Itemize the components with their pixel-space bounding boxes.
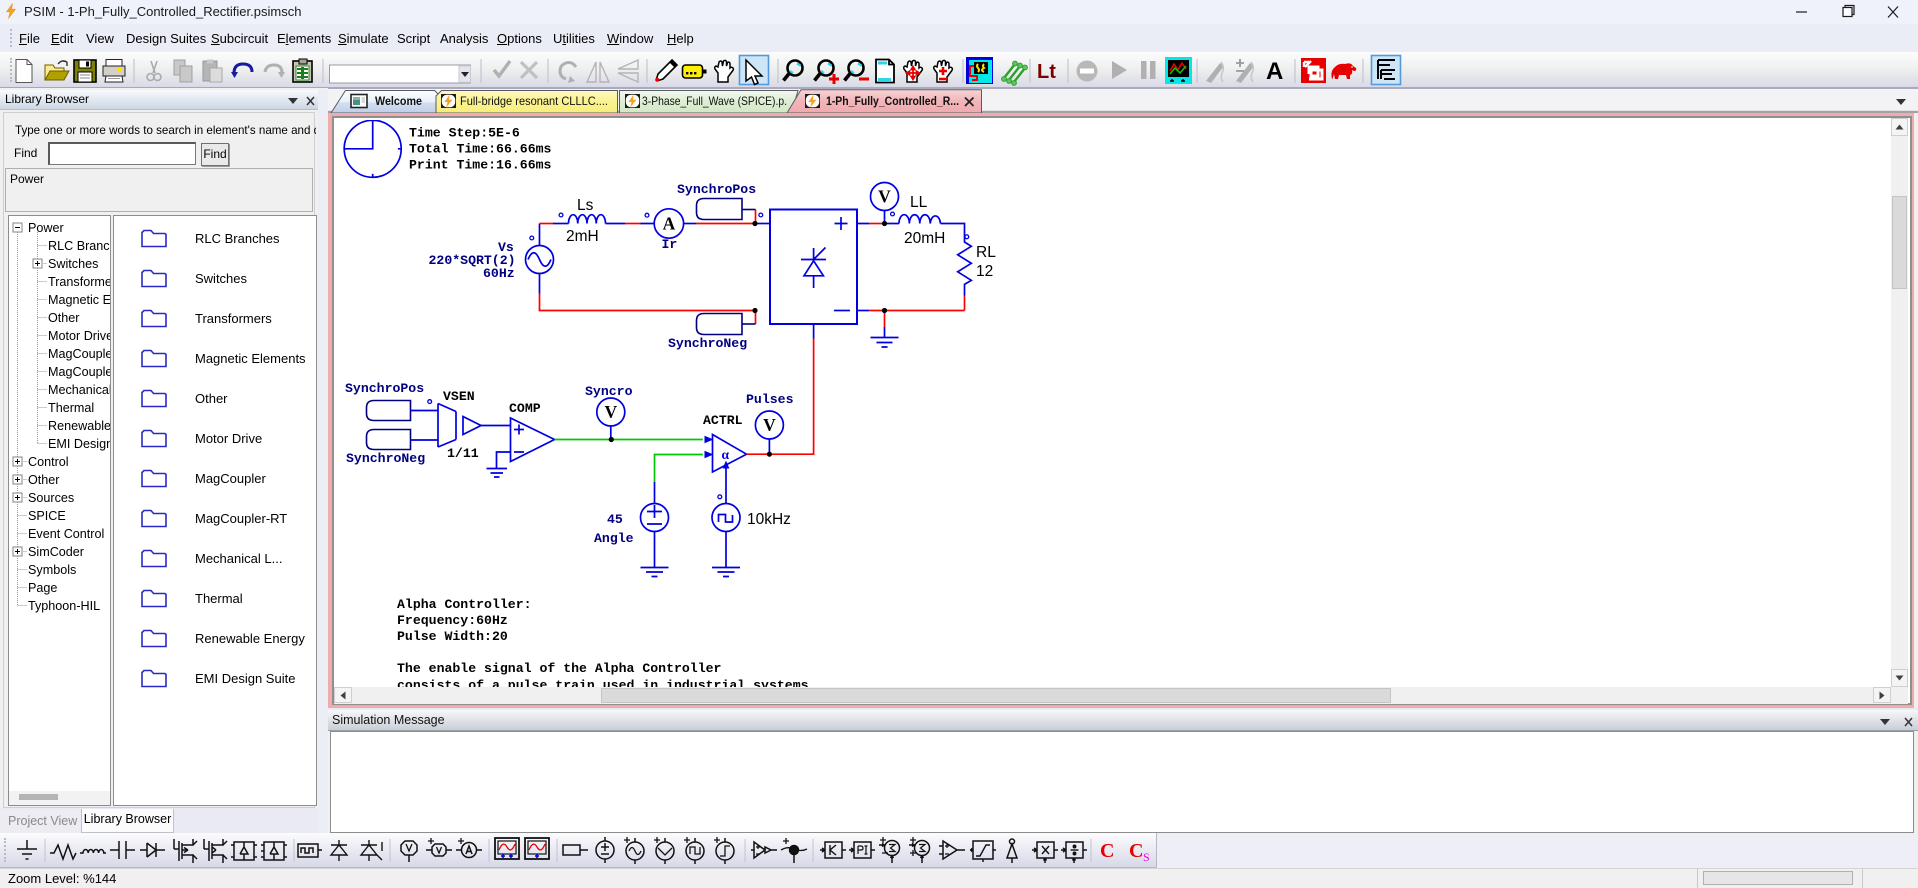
svg-text:COMP: COMP bbox=[509, 401, 541, 416]
svg-text:Frequency:60Hz: Frequency:60Hz bbox=[397, 613, 508, 628]
svg-text:Welcome: Welcome bbox=[375, 94, 422, 108]
svg-text:VSEN: VSEN bbox=[443, 389, 475, 404]
svg-text:S: S bbox=[1143, 850, 1150, 864]
svg-text:Print Time:16.66ms: Print Time:16.66ms bbox=[409, 158, 552, 173]
svg-text:10kHz: 10kHz bbox=[747, 511, 791, 528]
svg-text:V: V bbox=[763, 415, 776, 435]
svg-text:Total Time:66.66ms: Total Time:66.66ms bbox=[409, 142, 552, 157]
svg-text:3-Phase_Full_Wave (SPICE).p.: 3-Phase_Full_Wave (SPICE).p. bbox=[642, 94, 787, 108]
svg-text:1-Ph_Fully_Controlled_R...: 1-Ph_Fully_Controlled_R... bbox=[826, 94, 959, 108]
svg-text:A: A bbox=[1266, 58, 1283, 85]
svg-text:The enable signal of the Alpha: The enable signal of the Alpha Controlle… bbox=[397, 661, 721, 676]
svg-text:C: C bbox=[1129, 840, 1143, 862]
svg-text:consists of a pulse train used: consists of a pulse train used in indust… bbox=[397, 678, 809, 687]
svg-text:ACTRL: ACTRL bbox=[703, 413, 743, 428]
svg-text:Time Step:5E-6: Time Step:5E-6 bbox=[409, 126, 520, 141]
svg-text:Pulse Width:20: Pulse Width:20 bbox=[397, 629, 508, 644]
svg-text:2mH: 2mH bbox=[566, 228, 599, 245]
svg-text:α: α bbox=[722, 447, 730, 462]
svg-text:Ls: Ls bbox=[577, 197, 594, 214]
svg-text:Full-bridge resonant CLLLC....: Full-bridge resonant CLLLC.... bbox=[460, 94, 608, 108]
svg-text:RL: RL bbox=[976, 244, 996, 261]
svg-text:A: A bbox=[663, 214, 676, 234]
svg-text:SynchroNeg: SynchroNeg bbox=[668, 336, 747, 351]
svg-text:1/11: 1/11 bbox=[447, 446, 479, 461]
svg-text:12: 12 bbox=[976, 263, 993, 280]
svg-text:Lt: Lt bbox=[1037, 61, 1056, 83]
svg-text:Alpha Controller:: Alpha Controller: bbox=[397, 597, 532, 612]
svg-text:SynchroPos: SynchroPos bbox=[345, 381, 424, 396]
svg-text:SynchroNeg: SynchroNeg bbox=[346, 451, 425, 466]
svg-text:V: V bbox=[604, 402, 617, 422]
svg-text:V: V bbox=[878, 187, 891, 207]
svg-text:Pulses: Pulses bbox=[746, 392, 794, 407]
svg-text:LL: LL bbox=[910, 194, 928, 211]
svg-text:45: 45 bbox=[607, 512, 623, 527]
svg-text:20mH: 20mH bbox=[904, 230, 945, 247]
svg-text:C: C bbox=[1100, 840, 1114, 862]
svg-text:SynchroPos: SynchroPos bbox=[677, 182, 756, 197]
svg-text:Ir: Ir bbox=[662, 237, 678, 252]
svg-text:Syncro: Syncro bbox=[585, 384, 633, 399]
svg-text:60Hz: 60Hz bbox=[483, 266, 515, 281]
svg-text:Angle: Angle bbox=[594, 531, 634, 546]
